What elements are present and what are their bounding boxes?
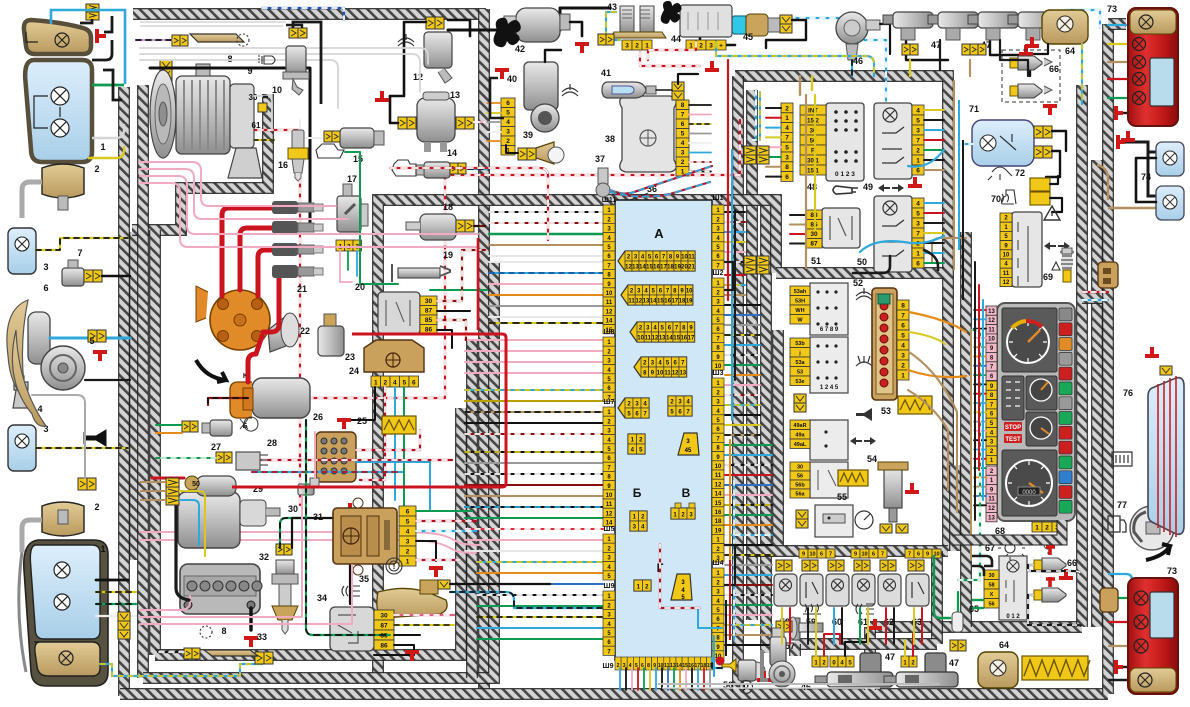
svg-text:64: 64 xyxy=(1065,46,1075,56)
pillar lamp 66b xyxy=(1010,84,1052,98)
wire cluster pin 16 xyxy=(974,449,986,451)
svg-text:24: 24 xyxy=(349,366,359,376)
knock sensor 28 xyxy=(236,452,268,470)
wire harness relay bottom band xyxy=(776,267,944,279)
wire white top pair xyxy=(140,21,286,23)
wire from block36 right pin row 25 xyxy=(725,454,772,456)
wire pink 13 xyxy=(474,121,485,123)
svg-text:4: 4 xyxy=(681,140,685,147)
ground 34 xyxy=(405,652,419,661)
wire headlamp2 white xyxy=(96,615,136,617)
door lock actuator 47 top 4 xyxy=(1008,12,1058,40)
svg-text:13: 13 xyxy=(670,663,676,669)
svg-text:10: 10 xyxy=(606,493,613,499)
svg-text:49aL: 49aL xyxy=(794,442,807,448)
wire red cluster vertical xyxy=(978,285,980,470)
svg-text:15: 15 xyxy=(353,154,363,164)
svg-text:4: 4 xyxy=(406,529,410,536)
wire red 24 xyxy=(360,387,385,480)
wire cluster pin 21 xyxy=(974,495,986,497)
wire from block36 right pin row 40 xyxy=(725,604,772,606)
fusible links 25a xyxy=(382,416,416,434)
wire black tangle 2 xyxy=(853,256,890,273)
wire red coil k xyxy=(252,459,452,461)
svg-text:6: 6 xyxy=(917,552,920,558)
wire black alt loop2 xyxy=(309,160,312,230)
ground strap 8 top xyxy=(190,34,244,42)
wire black 67 feeds xyxy=(972,566,984,576)
brake icon 35 xyxy=(386,558,402,574)
wire to block36 left pin row 2 xyxy=(489,222,603,224)
svg-text:9: 9 xyxy=(926,552,929,558)
wire harness under cluster xyxy=(952,520,1062,540)
wire black 34b xyxy=(394,634,420,636)
pins of relay 50 xyxy=(912,198,924,208)
ground 56 xyxy=(757,671,771,680)
svg-text:11: 11 xyxy=(606,300,613,306)
pillar lamp 66a xyxy=(1010,56,1052,70)
wire green switch row xyxy=(958,330,980,580)
ground 41 xyxy=(705,61,719,70)
wire from block36 right pin row 30 xyxy=(725,504,772,506)
alternator 9 xyxy=(150,64,262,178)
switch 59 xyxy=(800,574,823,606)
svg-text:87: 87 xyxy=(425,308,433,315)
wire red-white rear xyxy=(1082,291,1108,293)
ground 66b xyxy=(1043,106,1057,115)
svg-text:5: 5 xyxy=(916,118,920,125)
wire harness right vertical b xyxy=(1091,160,1103,627)
wire stub relay 50 pin 4 xyxy=(924,232,944,234)
svg-text:16: 16 xyxy=(278,160,288,170)
wire orange 27 xyxy=(156,432,182,434)
svg-text:17: 17 xyxy=(688,335,695,341)
connector 18 xyxy=(456,220,465,232)
svg-text:12: 12 xyxy=(988,318,995,324)
column switch 52 box3 xyxy=(810,420,848,460)
warning triangle icon xyxy=(1044,206,1060,220)
wire cyan channel vertical b xyxy=(733,480,735,640)
svg-text:52: 52 xyxy=(853,278,863,288)
wire black top right run xyxy=(448,8,610,30)
wire cyan cluster vertical xyxy=(982,300,984,500)
wire pink bundle 4 xyxy=(140,540,476,553)
wire black pump 10 stub xyxy=(286,25,302,28)
block 36 bottom pin row xyxy=(615,657,621,670)
ground 74 xyxy=(1121,131,1135,140)
ground 74 xyxy=(1118,135,1125,149)
wire black-white lamp 66c loop xyxy=(1028,565,1080,573)
svg-text:3: 3 xyxy=(709,43,713,50)
connector X5 in block xyxy=(618,398,649,418)
alternator terminal 30 xyxy=(258,103,267,112)
pins of 67 xyxy=(984,570,999,580)
wire to block36 left pin row 29 xyxy=(465,528,603,530)
svg-text:8: 8 xyxy=(227,54,232,64)
connector 41 xyxy=(672,82,684,91)
connector 76 xyxy=(1160,366,1172,375)
wire to block36 left pin row 34 xyxy=(477,583,603,585)
wire red to tail lamp 73 xyxy=(1108,78,1132,80)
svg-text:56a: 56a xyxy=(795,492,805,498)
svg-text:45: 45 xyxy=(685,448,692,454)
svg-text:6: 6 xyxy=(43,283,48,293)
wire black lock run xyxy=(939,40,941,70)
wire cyan channel vertical xyxy=(731,150,733,420)
svg-text:53H: 53H xyxy=(795,299,805,305)
connector X7 in block xyxy=(628,434,645,454)
wire cyan-red brake top xyxy=(610,182,710,197)
svg-text:3: 3 xyxy=(785,154,789,161)
svg-text:А: А xyxy=(654,226,664,241)
pillar lamp 66c xyxy=(1034,558,1066,572)
lamp icon 8 xyxy=(237,34,249,46)
wire block36 bottom drop 9 xyxy=(667,668,669,690)
wire cyan-black 35 xyxy=(450,592,602,608)
ground lamp 66c xyxy=(1046,545,1055,555)
wire from block36 right pin row 13 xyxy=(725,334,760,336)
wire to block36 left pin row 33 xyxy=(477,572,603,574)
wire tan cluster xyxy=(932,238,966,262)
ignition coil 26 xyxy=(230,378,310,418)
fuse links 53c xyxy=(838,470,868,486)
wire headlamp2 cyan xyxy=(100,664,262,676)
connector 15 xyxy=(324,131,332,142)
pin labels 52d xyxy=(790,462,810,471)
svg-text:11: 11 xyxy=(988,327,995,333)
wire black 41 xyxy=(678,74,698,84)
svg-text:30: 30 xyxy=(988,573,994,579)
svg-text:46: 46 xyxy=(853,56,863,66)
wire 74 link xyxy=(1136,158,1156,202)
wiper icon 52 xyxy=(856,288,872,300)
wire red lock bl xyxy=(824,634,840,656)
wire stub relay 50 pin 1 xyxy=(924,202,944,204)
svg-text:13: 13 xyxy=(679,370,686,376)
headlamp unit 1 front-left xyxy=(24,20,92,162)
connector of switch 62 xyxy=(880,560,888,571)
wire 38 pin3 xyxy=(689,123,711,125)
svg-text:54: 54 xyxy=(867,454,877,464)
pins of fuse box 53 xyxy=(897,300,909,310)
wire to block36 left pin row 32 xyxy=(477,561,603,563)
svg-text:30: 30 xyxy=(288,504,298,514)
wire to block36 left pin row 25 xyxy=(465,484,603,486)
wire white 15 xyxy=(300,120,322,138)
wire harness lower dash band xyxy=(748,545,948,557)
wire switch drop 10 xyxy=(893,608,895,644)
connector of switch 59 xyxy=(802,560,810,571)
wire switch drop 6 xyxy=(841,608,843,644)
wire from block36 right pin row 26 xyxy=(725,464,772,466)
wire from block36 right pin row 19 xyxy=(725,394,760,396)
svg-text:Ш9: Ш9 xyxy=(604,583,615,590)
pins 12 of lock br xyxy=(901,656,909,667)
radiator fan 6 blades xyxy=(7,300,28,400)
svg-text:11: 11 xyxy=(645,335,652,341)
wire cyan right vertical xyxy=(958,100,960,250)
svg-text:87: 87 xyxy=(810,241,818,248)
wire red-black 18 xyxy=(474,225,485,227)
connector X9 in block xyxy=(630,511,647,531)
svg-text:39: 39 xyxy=(523,130,533,140)
wire leader 36 xyxy=(630,193,648,200)
sun icon 66c xyxy=(1044,541,1052,549)
wire yellow 47b xyxy=(969,60,971,76)
svg-text:2: 2 xyxy=(635,43,639,50)
svg-text:11: 11 xyxy=(688,254,695,260)
svg-text:3: 3 xyxy=(901,353,905,360)
wire cluster pin 15 xyxy=(974,439,986,441)
wire harness left bundle second xyxy=(129,232,141,560)
svg-text:4: 4 xyxy=(37,404,42,414)
wire block36 bottom drop 14 xyxy=(697,668,699,690)
cluster left pins pink2 xyxy=(986,466,997,475)
wire harness over block 36 xyxy=(484,200,776,273)
headlamp unit 1 bottom xyxy=(24,540,108,686)
hv wire cyl2 xyxy=(240,228,272,290)
svg-text:66: 66 xyxy=(1067,558,1077,568)
wire black lock run2 xyxy=(1000,40,1028,76)
wire stub relay 50 pin 3 xyxy=(924,222,944,224)
svg-text:Ш7: Ш7 xyxy=(604,399,615,406)
wire stub relay 49 pin 4 xyxy=(924,139,944,141)
svg-text:2: 2 xyxy=(506,138,510,145)
wire cyan weave xyxy=(860,236,944,252)
wire tan to tail lamp 73 bottom xyxy=(1108,645,1132,647)
wire from block36 right pin row 32 xyxy=(725,524,772,526)
connector X3 in block xyxy=(630,322,695,342)
svg-text:Б: Б xyxy=(242,423,247,430)
svg-text:76: 76 xyxy=(1123,388,1133,398)
engine icon 14 xyxy=(392,160,416,176)
wire yellow lock br xyxy=(904,640,906,656)
svg-text:4: 4 xyxy=(901,343,905,350)
wire to block36 left pin row 26 xyxy=(465,495,603,497)
wire to block36 left pin row 38 xyxy=(477,627,603,629)
wire stub to ignition switch pin 2 xyxy=(766,117,781,119)
wire red-white alternator output xyxy=(238,130,300,505)
wire tan lock run xyxy=(805,95,807,268)
connector 71b xyxy=(1034,146,1043,158)
wire harness lighter drop xyxy=(949,465,961,551)
wire cyan door top xyxy=(752,90,756,140)
wire 38 pin4 xyxy=(689,133,711,135)
wire cluster pin 4 xyxy=(974,337,986,339)
svg-text:2: 2 xyxy=(785,105,789,112)
fuse links near 53 xyxy=(898,396,932,414)
wire green to tail lamp 73 xyxy=(1108,97,1132,99)
wire from block36 right pin row 12 xyxy=(725,324,760,326)
wire gray under block xyxy=(658,683,940,685)
svg-text:1: 1 xyxy=(1035,525,1039,532)
svg-text:7: 7 xyxy=(829,552,832,558)
spark plug 21d xyxy=(272,265,323,278)
pins of relay 51 xyxy=(806,210,822,220)
wire gray 40 xyxy=(487,121,501,123)
column switch 52 box2 xyxy=(810,337,848,393)
wire white bundle 3 xyxy=(140,60,338,108)
svg-text:35: 35 xyxy=(359,574,369,584)
svg-text:3: 3 xyxy=(625,43,629,50)
wire stub to ignition switch pin 6 xyxy=(766,156,781,158)
svg-text:25: 25 xyxy=(357,416,367,426)
svg-text:56: 56 xyxy=(797,474,803,480)
fuel valve 18 xyxy=(420,214,456,240)
svg-text:1: 1 xyxy=(100,544,105,554)
wire stub to ignition switch pin 5 xyxy=(766,146,781,148)
wire pink 34 xyxy=(394,614,454,616)
headlamp 1b lens hatch xyxy=(19,552,26,672)
wire switch drop 1 xyxy=(781,608,783,644)
pins row 59 xyxy=(799,549,808,558)
wire red 57 xyxy=(660,544,700,608)
wire pink bundle 3 xyxy=(140,532,480,545)
connector 55 xyxy=(796,510,808,519)
license lamp 74a xyxy=(1156,142,1184,176)
connector 13 right xyxy=(456,117,465,129)
wire cyan to tail lamp 73 bottom xyxy=(1108,574,1132,584)
wire stub relay 50 pin 5 xyxy=(924,242,944,244)
wire to block36 left pin row 3 xyxy=(489,233,603,235)
vacuum elbow 30 xyxy=(298,478,319,495)
connector X4 in block xyxy=(634,357,687,377)
svg-text:4: 4 xyxy=(916,201,920,208)
heater resistor bottom right xyxy=(1022,656,1090,680)
connector 57 xyxy=(776,621,784,632)
cluster left pins pink xyxy=(986,306,997,315)
wire black headlamp out xyxy=(103,70,122,100)
svg-text:53a: 53a xyxy=(795,360,805,366)
ground tail lamp 73 bottom xyxy=(1116,660,1123,674)
hv wire cyl4 xyxy=(263,269,312,332)
ground battery xyxy=(244,638,258,647)
svg-text:2: 2 xyxy=(1045,525,1049,532)
connector pair column upper a xyxy=(744,146,756,164)
svg-text:21: 21 xyxy=(297,284,307,294)
svg-text:8: 8 xyxy=(901,303,905,310)
wire to block36 left pin row 10 xyxy=(489,305,603,307)
wire cluster pin 6 xyxy=(974,356,986,358)
svg-text:33: 33 xyxy=(257,632,267,642)
svg-text:5: 5 xyxy=(402,380,406,387)
horn icon xyxy=(84,430,106,446)
wire black lock runs 2 xyxy=(990,40,1030,76)
wire stub relay 51 pin 4 xyxy=(790,243,806,245)
svg-text:WH: WH xyxy=(795,308,804,314)
radiator fan motor 42 xyxy=(504,8,570,42)
wire black lock bl xyxy=(845,634,867,656)
connector X2 in block xyxy=(621,285,693,305)
wire green to tail lamp 73 bottom xyxy=(1108,597,1132,599)
wire tan to tail lamp 73 xyxy=(1108,61,1132,63)
svg-text:41: 41 xyxy=(601,68,611,78)
wire green-black 33 xyxy=(280,518,310,548)
wire from block36 right pin row 42 xyxy=(725,624,772,626)
wire pink to 30 xyxy=(314,432,316,478)
svg-text:10: 10 xyxy=(637,335,644,341)
svg-text:22: 22 xyxy=(300,326,310,336)
wire harness left return 2 xyxy=(137,85,149,678)
svg-text:9: 9 xyxy=(854,552,857,558)
wire to block36 left pin row 30 xyxy=(465,539,603,541)
wire black to license lamp 74b xyxy=(1148,152,1164,196)
wire black 40 ground lead xyxy=(490,78,504,118)
wire pink battery area 2 xyxy=(140,565,352,624)
key icon 48 xyxy=(833,186,858,194)
svg-text:34: 34 xyxy=(317,593,327,603)
connector headlamp bottom xyxy=(118,612,130,621)
brake fluid sensor 37 xyxy=(596,168,610,197)
wire from block36 right pin row 11 xyxy=(725,314,760,316)
connector X10 tabs xyxy=(675,503,681,508)
wire to block36 left pin row 17 xyxy=(465,389,603,391)
wire cluster pin 22 xyxy=(974,504,986,506)
switch 62 xyxy=(878,574,901,606)
wire harness center vertical 2 xyxy=(466,340,478,678)
brake reservoir 35 xyxy=(377,580,447,618)
pin labels 52a xyxy=(790,286,810,296)
svg-text:12: 12 xyxy=(413,72,423,82)
wire switch drop 2 xyxy=(789,608,791,644)
hv wire cyl1 xyxy=(222,208,272,296)
seat heater icon 72 xyxy=(1002,190,1017,204)
svg-text:10: 10 xyxy=(715,464,722,470)
wire from block36 right pin row 27 xyxy=(725,474,772,476)
svg-text:12: 12 xyxy=(672,370,679,376)
washer pump 12 xyxy=(424,32,452,68)
wire cyan 25 xyxy=(356,462,430,510)
wiper icon 40 xyxy=(562,84,578,96)
cigarette lighter 54 xyxy=(878,462,908,522)
wire yellow-black alt xyxy=(254,139,274,141)
svg-text:Ш2: Ш2 xyxy=(713,270,724,277)
svg-text:12: 12 xyxy=(1003,280,1010,286)
wire blue-red top xyxy=(262,8,344,20)
connector X1 in block xyxy=(618,251,695,271)
svg-text:TEST: TEST xyxy=(1005,437,1021,443)
wire from block36 right pin row 34 xyxy=(725,544,772,546)
wire black 44 to 45 xyxy=(700,30,735,45)
connector 14 xyxy=(450,163,458,174)
wire cyan to tail lamp 73 xyxy=(1108,24,1132,26)
relay 51 xyxy=(822,208,860,248)
svg-text:77: 77 xyxy=(1117,500,1127,510)
hv wire cyl3 xyxy=(258,250,272,296)
ground 13 xyxy=(375,91,389,100)
door lock 47 bottom-left xyxy=(815,653,893,687)
wire stub to ignition switch pin 4 xyxy=(766,136,781,138)
fog icon 34 xyxy=(342,586,360,596)
svg-text:5: 5 xyxy=(89,336,94,346)
pins of 31 xyxy=(399,506,416,516)
wire red-white ignition feed xyxy=(248,120,740,398)
block 36 right pin column bottom xyxy=(712,568,724,577)
svg-text:38: 38 xyxy=(605,134,615,144)
wire from block36 right pin row 16 xyxy=(725,364,760,366)
wire red channel vertical xyxy=(727,60,729,300)
pins of 38 xyxy=(676,100,689,110)
svg-text:X: X xyxy=(990,592,994,598)
wire block36 bottom drop 8 xyxy=(661,668,663,690)
svg-text:18: 18 xyxy=(443,202,453,212)
wire from block36 right pin row 5 xyxy=(725,251,745,253)
wire green 65 feed xyxy=(934,556,950,618)
svg-text:5: 5 xyxy=(901,333,905,340)
wire pink bundle 4 xyxy=(140,183,478,247)
wire from block36 right pin row 17 xyxy=(725,374,760,376)
arrow icon 73 xyxy=(1146,544,1170,560)
